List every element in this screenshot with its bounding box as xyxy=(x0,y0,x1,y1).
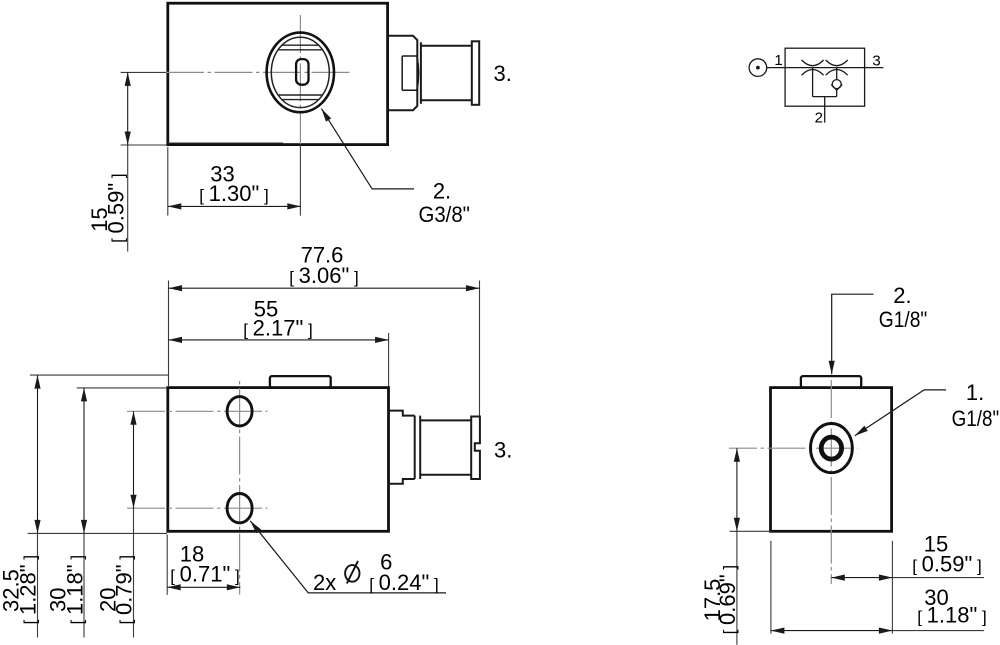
dimension 30 left extension xyxy=(770,541,772,634)
upper mounting hole xyxy=(227,397,252,426)
dimension 30 line continuation xyxy=(892,630,984,632)
dimension 15 line continuation xyxy=(892,577,984,579)
port 1 thread ring xyxy=(821,437,841,459)
dimension 55 extension right xyxy=(388,333,390,387)
svg-text:3.: 3. xyxy=(494,61,512,86)
end view vertical centerline xyxy=(830,380,832,584)
left dims shared bottom extension xyxy=(28,532,167,534)
dimension 17.5 bottom extension xyxy=(730,530,771,532)
leader line port 2 top xyxy=(832,294,874,374)
dimension 15 line with arrows xyxy=(831,577,892,579)
mounting holes vertical centerline xyxy=(239,378,241,595)
diameter symbol circle xyxy=(345,565,359,582)
dimension 15 extension line top xyxy=(121,71,166,73)
branch line left xyxy=(812,68,814,97)
SCHEMATIC xyxy=(749,48,883,122)
dimension 77.6 line with arrows xyxy=(169,287,480,289)
connector end flange with notch front view xyxy=(471,417,480,480)
dimension 33 extension right / centerline continuation xyxy=(299,145,301,216)
check valve upper stem xyxy=(836,68,838,80)
svg-text:3: 3 xyxy=(872,52,880,69)
dimension 18 extension left xyxy=(166,535,168,595)
hex flat chord top inner xyxy=(278,49,322,51)
front view top tab boss xyxy=(270,376,331,388)
connector collar edge top view xyxy=(420,42,422,104)
TOPVIEW xyxy=(121,3,480,251)
svg-text:[ 3.06" ]: [ 3.06" ] xyxy=(289,263,359,288)
svg-text:2: 2 xyxy=(815,109,823,126)
svg-text:[ 0.59" ]: [ 0.59" ] xyxy=(912,551,982,576)
branch bottom link xyxy=(813,96,837,98)
pilot indicator dot xyxy=(756,66,760,70)
throttle left bottom arc xyxy=(802,70,824,76)
dimension 30 line with arrows xyxy=(83,388,85,534)
main flow line 1 to 3 xyxy=(767,67,884,69)
svg-text:1: 1 xyxy=(774,52,782,69)
lower hole horizontal centerline xyxy=(127,507,268,509)
svg-text:1.: 1. xyxy=(966,380,984,405)
leader line 2x diameter 6 xyxy=(250,521,446,593)
svg-text:[ 1.18" ]: [ 1.18" ] xyxy=(917,603,987,628)
dimension 15 and 30 right extension xyxy=(891,541,893,634)
dimension 30 line continuation xyxy=(83,533,85,637)
top view horizontal centerline xyxy=(166,71,350,73)
top view body xyxy=(168,3,388,144)
svg-text:G1/8": G1/8" xyxy=(952,406,1000,431)
dimension 32.5 line with arrows xyxy=(37,375,39,533)
dimension 17.5 line with arrows xyxy=(736,448,738,531)
hex flat chord bottom outer xyxy=(282,99,319,101)
upper hole horizontal centerline xyxy=(127,410,268,412)
check valve lower stem xyxy=(836,90,838,96)
svg-text:[ 2.17" ]: [ 2.17" ] xyxy=(243,316,313,341)
valve body box xyxy=(785,48,865,106)
end view body xyxy=(771,388,892,532)
top view vertical centerline xyxy=(299,15,301,144)
port 2 boss outer ellipse xyxy=(267,33,334,113)
dimension 20 line continuation xyxy=(133,508,135,637)
end view horizontal centerline xyxy=(729,447,858,449)
ENDVIEW xyxy=(729,294,984,645)
svg-text:G3/8": G3/8" xyxy=(418,202,470,227)
svg-text:[ 1.28" ]: [ 1.28" ] xyxy=(16,555,41,625)
connector nut block top view xyxy=(389,36,418,110)
svg-text:2.: 2. xyxy=(433,179,451,204)
port 2 thread inner ellipse xyxy=(271,37,329,107)
dimension 30 line with arrows xyxy=(771,630,893,632)
diameter symbol slash xyxy=(347,561,358,584)
top view body bottom edge thin step xyxy=(168,142,283,144)
dimension 55 line with arrows xyxy=(169,339,389,341)
FRONTVIEW xyxy=(28,281,480,638)
lower mounting hole xyxy=(227,494,252,523)
check valve seat xyxy=(831,85,842,91)
svg-text:[ 1.18" ]: [ 1.18" ] xyxy=(63,555,88,625)
dimension 18 line with arrows xyxy=(167,586,240,588)
svg-text:3.: 3. xyxy=(494,437,512,462)
svg-text:[ 0.71" ]: [ 0.71" ] xyxy=(170,562,240,587)
throttle right bottom arc xyxy=(826,70,848,76)
front view body xyxy=(168,388,389,532)
svg-text:[ 0.24" ]: [ 0.24" ] xyxy=(369,570,439,595)
svg-text:[ 0.79" ]: [ 0.79" ] xyxy=(112,555,137,625)
dimension 33 line with arrows xyxy=(168,205,301,207)
connector end flange top view xyxy=(472,41,479,105)
connector cylinder seen in nut xyxy=(402,56,419,90)
screw slot xyxy=(296,59,308,85)
check valve ball xyxy=(832,80,841,89)
dimension 33 extension left xyxy=(167,147,169,216)
throttle right top arc xyxy=(826,60,848,66)
hex flat chord bottom inner xyxy=(278,94,322,96)
dimension 30 top extension xyxy=(77,387,167,389)
port 2 stub line xyxy=(824,97,826,123)
dimension 15 line with arrows xyxy=(127,72,129,145)
dimension 20 line with arrows xyxy=(133,411,135,508)
leader line for port 2 G3/8 xyxy=(321,109,414,189)
connector barrel front view xyxy=(420,420,471,474)
dimension 15 extension line bottom xyxy=(121,144,167,146)
dimension 15 line continuation xyxy=(127,145,129,252)
pilot indicator circle xyxy=(749,59,767,77)
dimension 77.6 extension left xyxy=(168,281,170,387)
leader line port 1 xyxy=(855,390,946,436)
dimension 77.6 extension right xyxy=(479,281,481,416)
connector barrel top view xyxy=(421,46,472,101)
dimension 32.5 top extension xyxy=(30,374,168,376)
svg-text:[ 0.59" ]: [ 0.59" ] xyxy=(103,173,128,243)
dimension 32.5 line continuation xyxy=(37,533,39,637)
throttle left top arc xyxy=(802,60,824,66)
connector collar front view xyxy=(415,416,421,479)
svg-text:2.: 2. xyxy=(893,283,911,308)
hex flat chord top outer xyxy=(282,44,319,46)
svg-text:[ 0.69" ]: [ 0.69" ] xyxy=(715,565,740,635)
port 1 outer circle xyxy=(811,424,853,473)
svg-text:[ 1.30" ]: [ 1.30" ] xyxy=(199,181,269,206)
end view top tab boss xyxy=(801,376,861,388)
connector nut profile front view xyxy=(389,411,415,484)
dimension 17.5 line continuation xyxy=(736,531,738,645)
svg-text:G1/8": G1/8" xyxy=(879,307,928,332)
svg-text:2x: 2x xyxy=(313,570,336,595)
